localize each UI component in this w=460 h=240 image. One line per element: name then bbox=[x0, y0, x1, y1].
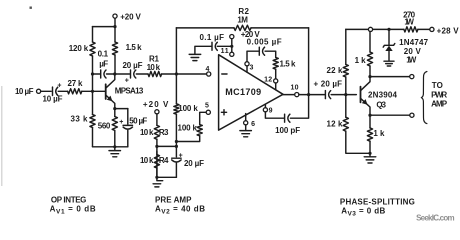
resistor 100k (upper) bbox=[174, 104, 179, 114]
ground (pin 6) bbox=[240, 131, 252, 137]
capacitor 100pF plate bbox=[284, 114, 286, 122]
junction rail / supply stub bbox=[113, 25, 116, 28]
zener diode D1 triangle bbox=[385, 46, 392, 51]
svg-text:AMP: AMP bbox=[431, 100, 448, 109]
wire emitter output bbox=[370, 114, 410, 116]
emitter arrow Q3 bbox=[362, 99, 368, 105]
junction 120k line / 0.1uF tap bbox=[91, 72, 94, 75]
junction output node bbox=[307, 93, 310, 96]
svg-text:1W: 1W bbox=[404, 17, 414, 26]
svg-text:+20 V: +20 V bbox=[143, 100, 169, 109]
wire zener top bbox=[388, 29, 390, 45]
scan edge artifact left bbox=[1, 86, 2, 186]
svg-text:PRE AMP: PRE AMP bbox=[155, 196, 192, 205]
svg-text:33 k: 33 k bbox=[71, 115, 89, 124]
svg-text:20 µF: 20 µF bbox=[184, 159, 204, 168]
transistor Q3 2N3904 base bar bbox=[360, 87, 362, 103]
transistor Q3 emitter bbox=[361, 98, 371, 115]
resistor R4 10k bbox=[154, 155, 159, 168]
svg-text:6: 6 bbox=[251, 121, 255, 128]
wire 560 to bottom rail bbox=[114, 131, 116, 147]
ground (0.1uF) bbox=[189, 54, 201, 60]
junction collector node Q3 bbox=[368, 75, 371, 78]
input terminal IN bbox=[37, 89, 41, 93]
wire input to C-in bbox=[41, 90, 52, 92]
junction R4 bottom bbox=[155, 176, 158, 179]
wire feedback rail right segment bbox=[251, 27, 309, 29]
wire feedback left vertical bbox=[175, 28, 177, 74]
svg-text:PHASE-SPLITTING: PHASE-SPLITTING bbox=[340, 198, 415, 207]
capacitor 50uF curved plate bbox=[123, 127, 132, 129]
terminal output lower bbox=[410, 113, 414, 117]
junction base node A bbox=[91, 90, 94, 93]
pin 4 terminal bbox=[207, 72, 211, 76]
wire N1 horizontal bbox=[157, 145, 177, 147]
pin 6 terminal bbox=[244, 121, 248, 125]
wire 12k branch bbox=[346, 95, 370, 154]
svg-text:50 µF: 50 µF bbox=[129, 117, 147, 126]
wire pin6 stub to triangle bbox=[245, 114, 247, 121]
junction collector node bbox=[113, 72, 116, 75]
wire supply stub bbox=[114, 18, 116, 26]
capacitor 20uF (bypass) curved plate bbox=[172, 160, 181, 162]
wire 20uF bypass to ground wire bbox=[175, 163, 177, 177]
wire 120k to node bbox=[92, 56, 94, 91]
svg-text:+ 20 µF: + 20 µF bbox=[314, 80, 343, 89]
plus sign (non-inverting input) bbox=[221, 110, 226, 115]
terminal output upper bbox=[410, 75, 414, 79]
svg-text:1 k: 1 k bbox=[373, 129, 385, 138]
wire 33k to bottom rail bbox=[92, 128, 94, 147]
terminal +20V (bias) bbox=[155, 110, 159, 114]
svg-text:PWR: PWR bbox=[431, 90, 447, 99]
ground (zener) bbox=[384, 61, 394, 66]
capacitor 20uF (coupling) plate bbox=[130, 70, 132, 78]
svg-text:4: 4 bbox=[206, 66, 210, 73]
capacitor 20uF (output) curved plate bbox=[329, 91, 331, 99]
wire 50uF branch bbox=[127, 109, 129, 125]
svg-text:+: + bbox=[125, 78, 129, 85]
capacitor 0.005uF curved plate bbox=[263, 47, 265, 55]
wire feedback rail left segment bbox=[176, 27, 234, 29]
wire 100k to N1 bbox=[175, 114, 177, 146]
transistor MPSA13 emitter bbox=[106, 95, 115, 109]
svg-text:1.5 k: 1.5 k bbox=[126, 43, 143, 52]
junction ground node right bbox=[368, 152, 371, 155]
transistor MPSA13 collector bbox=[106, 74, 115, 88]
wire node to 33k bbox=[92, 91, 94, 114]
op-amp U1 MC1709 triangle bbox=[219, 55, 283, 130]
wire C 0.1uF to collector node bbox=[107, 73, 115, 75]
wire R4 bottom to cap bottom bbox=[157, 176, 177, 178]
capacitor C-in 10uF curved plate bbox=[56, 87, 58, 95]
pin 9 terminal bbox=[263, 108, 267, 112]
svg-text:MC1709: MC1709 bbox=[225, 87, 261, 97]
resistor 22k bbox=[343, 64, 348, 77]
wire R3 to node N1 bbox=[156, 139, 158, 146]
svg-text:100 k: 100 k bbox=[178, 124, 198, 133]
pin 3 terminal bbox=[245, 62, 249, 66]
svg-text:OP INTEG: OP INTEG bbox=[51, 196, 87, 205]
wire 1.5k to pin12 bbox=[275, 69, 277, 79]
svg-text:20 µF: 20 µF bbox=[123, 61, 143, 70]
svg-text:Q3: Q3 bbox=[376, 101, 386, 110]
svg-text:3: 3 bbox=[250, 65, 254, 72]
junction emitter node Q3 bbox=[368, 114, 371, 117]
junction emitter node bbox=[113, 107, 116, 110]
pin 5 terminal bbox=[206, 110, 210, 114]
resistor 1k (collector) bbox=[367, 52, 372, 66]
wire node to C 0.1uF bbox=[93, 73, 101, 75]
svg-text:27 k: 27 k bbox=[68, 79, 84, 88]
resistor 1.5k (left) bbox=[112, 42, 117, 55]
transistor Q MPSA13 base bar bbox=[105, 84, 107, 99]
svg-text:+: + bbox=[57, 83, 61, 90]
wire 0.1uF to ground bbox=[195, 46, 211, 54]
capacitor 0.1uF (left) plate bbox=[100, 70, 102, 78]
svg-text:TO: TO bbox=[432, 81, 443, 90]
terminal +20V (left) bbox=[113, 14, 117, 18]
svg-text:+20 V: +20 V bbox=[120, 12, 141, 21]
wire 100pF to output node bbox=[290, 95, 308, 119]
junction pin4 node bbox=[175, 72, 178, 75]
wire C-in to R 27k bbox=[58, 90, 67, 92]
wire pin12 stub to triangle bbox=[275, 83, 277, 90]
junction R3/R4 node bbox=[155, 145, 158, 148]
wire collector node to 20uF bbox=[115, 73, 130, 75]
wire R1 to pin4 node bbox=[162, 73, 207, 75]
capacitor 20uF (bypass) plate bbox=[172, 157, 181, 159]
svg-text:100 k: 100 k bbox=[178, 104, 198, 113]
ground (left section) bbox=[109, 151, 121, 157]
svg-text:1W: 1W bbox=[406, 56, 416, 65]
capacitor 20uF (coupling) curved plate bbox=[134, 70, 136, 78]
wire pin3 up and comp top bbox=[247, 51, 259, 62]
resistor 27k bbox=[68, 89, 82, 94]
svg-text:0.1: 0.1 bbox=[98, 50, 109, 59]
junction N1 / cap bbox=[175, 145, 178, 148]
wire pin4 node down to 100k bbox=[175, 74, 177, 104]
transistor Q3 collector bbox=[361, 77, 371, 91]
svg-text:2N3904: 2N3904 bbox=[368, 90, 398, 99]
svg-text:+: + bbox=[119, 119, 123, 126]
junction 100k bottom / N1 wire bbox=[175, 140, 178, 143]
svg-text:1.5 k: 1.5 k bbox=[280, 59, 297, 68]
resistor 1k (emitter) bbox=[367, 128, 372, 141]
wire comp cap to 1.5k bbox=[265, 51, 276, 57]
resistor 1.5k (comp) bbox=[273, 57, 278, 69]
wire pin10 to coupling cap bbox=[299, 94, 325, 96]
emitter arrow MPSA13 bbox=[107, 96, 113, 102]
wire 20uF to R1 bbox=[136, 73, 148, 75]
wire second 100k to pin5 bbox=[200, 112, 207, 124]
wire N1 to second 100k bbox=[176, 136, 199, 142]
svg-text:1M: 1M bbox=[237, 15, 248, 24]
pin 12 terminal bbox=[274, 79, 278, 83]
speck artifact top-left bbox=[30, 7, 32, 9]
svg-text:9: 9 bbox=[269, 107, 273, 114]
wire ground stem left bbox=[114, 147, 116, 150]
wire 1k collector branch bbox=[369, 32, 371, 77]
svg-text:0.005 µF: 0.005 µF bbox=[247, 37, 282, 46]
wire N1 to 20uF bypass cap bbox=[175, 146, 177, 156]
junction Q3 base node bbox=[344, 93, 347, 96]
svg-text:SeekIC.com: SeekIC.com bbox=[416, 213, 455, 222]
svg-text:10 k: 10 k bbox=[147, 63, 161, 72]
svg-text:12 k: 12 k bbox=[327, 119, 344, 128]
svg-text:10 k: 10 k bbox=[140, 156, 154, 165]
brace to PWR AMP bbox=[421, 72, 427, 124]
wire bottom rail left bbox=[93, 146, 128, 148]
wire top right rail bbox=[346, 28, 404, 30]
wire 1.5k to collector node bbox=[114, 55, 116, 74]
capacitor 0.005uF plate bbox=[258, 47, 260, 55]
terminal on rail (supply tap) bbox=[368, 27, 372, 31]
svg-text:11: 11 bbox=[221, 48, 229, 55]
wire pin3 stub to triangle bbox=[246, 66, 248, 72]
svg-text:+28 V: +28 V bbox=[437, 26, 460, 35]
wire output cap to Q3 base bbox=[331, 94, 356, 96]
zener diode D1 1N4747 cathode bar bbox=[383, 44, 395, 48]
svg-text:R3: R3 bbox=[159, 128, 169, 137]
resistor 560 bbox=[112, 117, 117, 131]
capacitor C-in 10uF plate bbox=[52, 87, 54, 95]
wire +20V to pin11 junction bbox=[231, 39, 233, 53]
wire +20V rail top-left bbox=[93, 26, 116, 28]
svg-text:12: 12 bbox=[264, 76, 272, 83]
wire 27k to base node bbox=[82, 90, 106, 92]
capacitor 0.1uF (opamp) curved plate bbox=[215, 42, 217, 50]
svg-text:10: 10 bbox=[291, 84, 299, 91]
svg-text:10 µF: 10 µF bbox=[15, 87, 34, 96]
wire zener bottom bbox=[388, 51, 390, 61]
svg-text:1N4747: 1N4747 bbox=[399, 38, 429, 47]
capacitor 20uF (output) plate bbox=[324, 91, 326, 99]
svg-text:120 k: 120 k bbox=[69, 44, 89, 53]
wire collector output bbox=[370, 76, 410, 78]
capacitor 0.1uF (opamp) plate bbox=[211, 42, 213, 50]
resistor 120k bbox=[90, 42, 95, 56]
svg-text:+: + bbox=[179, 152, 183, 159]
svg-text:R4: R4 bbox=[159, 156, 169, 165]
capacitor 50uF plate bbox=[123, 124, 132, 126]
wire pin6 ground stem bbox=[245, 125, 247, 130]
capacitor 0.1uF (left) curved plate bbox=[104, 70, 106, 78]
wire 50uF to bottom rail bbox=[127, 130, 129, 147]
minus sign (inverting input) bbox=[222, 73, 227, 75]
svg-text:5: 5 bbox=[205, 102, 209, 109]
svg-text:0.1 µF: 0.1 µF bbox=[200, 33, 225, 42]
junction bottom rail bbox=[113, 145, 116, 148]
ground (bias chain) bbox=[153, 151, 163, 187]
svg-text:10 µF: 10 µF bbox=[43, 95, 63, 104]
resistor R2 1M bbox=[234, 25, 251, 30]
junction pin11 node bbox=[230, 45, 233, 48]
svg-text:µF: µF bbox=[99, 59, 108, 68]
resistor R1 10k bbox=[148, 71, 162, 76]
terminal +20V (opamp) bbox=[230, 35, 234, 39]
svg-text:1 k: 1 k bbox=[355, 56, 367, 65]
wire feedback right vertical bbox=[308, 28, 310, 95]
resistor 100k (lower) bbox=[197, 125, 202, 136]
resistor 33k bbox=[90, 115, 95, 128]
wire pin9 to 100pF bbox=[265, 112, 284, 118]
svg-text:10 k: 10 k bbox=[140, 128, 154, 137]
wire R4 leads bbox=[156, 146, 158, 177]
capacitor 100pF curved plate bbox=[288, 114, 290, 122]
pin 11 terminal bbox=[230, 52, 234, 56]
wire 270 to +28V bbox=[418, 28, 430, 30]
wire 1k emitter branch bbox=[369, 115, 371, 153]
junction zener tap bbox=[387, 28, 390, 31]
wire pin9 stub to triangle bbox=[264, 104, 266, 107]
svg-text:22 k: 22 k bbox=[327, 66, 344, 75]
svg-text:MPSA13: MPSA13 bbox=[115, 86, 144, 95]
resistor R3 10k bbox=[154, 125, 159, 139]
wire bias terminal to R3 bbox=[156, 114, 158, 125]
wire ground stem right bbox=[369, 153, 371, 156]
ground (right section) bbox=[364, 157, 376, 163]
wire opamp output bbox=[283, 94, 295, 96]
wire 0.1uF line bbox=[217, 45, 232, 47]
wire emitter to 560 bbox=[114, 109, 116, 117]
terminal +28V bbox=[430, 27, 434, 31]
wire rail to 1.5k bbox=[114, 27, 116, 42]
wire emitter node to 50uF bbox=[115, 108, 128, 110]
wire rail to 120k bbox=[92, 27, 94, 42]
svg-text:560: 560 bbox=[98, 122, 111, 131]
wire 22k branch bbox=[345, 29, 347, 94]
resistor 270 1W bbox=[404, 27, 418, 32]
resistor 12k bbox=[343, 117, 348, 131]
pin 10 terminal bbox=[295, 93, 299, 97]
svg-text:100 pF: 100 pF bbox=[275, 126, 300, 135]
